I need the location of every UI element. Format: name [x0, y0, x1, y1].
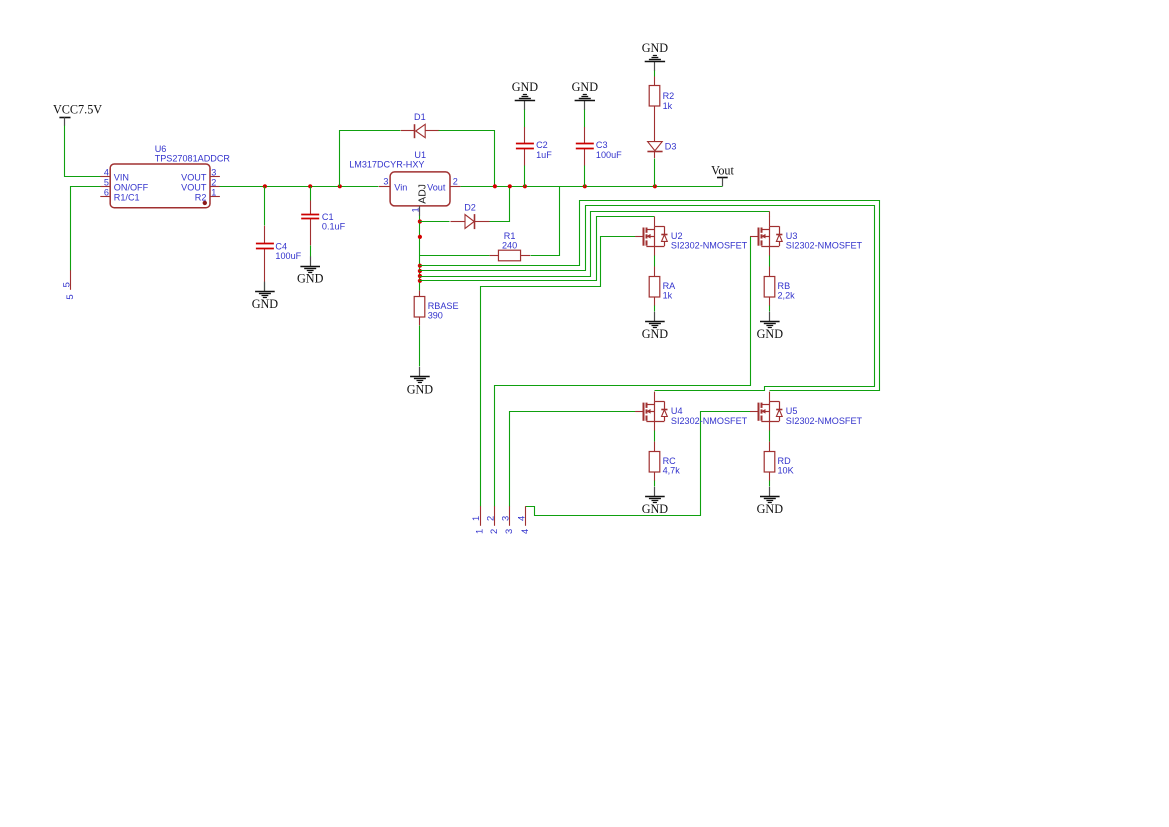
- svg-text:3: 3: [383, 177, 388, 187]
- wire bus to D1 anode: [340, 131, 401, 187]
- node bus/C3: [583, 184, 587, 188]
- capacitor C1 plates: [301, 215, 319, 219]
- wire ground to C3: [584, 110, 586, 128]
- wire C2 to bus: [524, 166, 526, 187]
- resistor R1 240: [490, 255, 530, 257]
- svg-text:GND: GND: [407, 382, 434, 396]
- connector pin 1: [470, 506, 485, 534]
- ground below C4: [252, 282, 279, 311]
- IC U6 TPS27081ADDCR: [100, 164, 220, 208]
- wire B ADJ to U4 drain: [420, 206, 875, 391]
- svg-text:240: 240: [502, 241, 517, 251]
- resistor RB body: [764, 277, 775, 298]
- capacitor C3 100uF: [584, 127, 586, 166]
- svg-text:1uF: 1uF: [536, 150, 552, 160]
- wire U1 Vout bus to Vout flag: [461, 186, 723, 188]
- wire D ADJ to U2 drain: [420, 217, 655, 281]
- svg-text:2: 2: [488, 529, 499, 534]
- svg-text:D3: D3: [665, 141, 677, 151]
- svg-text:1: 1: [211, 187, 216, 197]
- svg-text:Vin: Vin: [394, 183, 407, 193]
- svg-text:4,7k: 4,7k: [663, 466, 681, 476]
- diode D2: [451, 214, 490, 229]
- svg-text:1: 1: [410, 207, 420, 212]
- wire U4 gate to pin 3: [510, 412, 636, 507]
- svg-text:1k: 1k: [663, 101, 673, 111]
- label RD 10K: [778, 456, 794, 476]
- label U1 LM317DCYR-HXY: [349, 150, 426, 169]
- svg-text:2,2k: 2,2k: [778, 291, 796, 301]
- label C3 100uF: [596, 140, 622, 160]
- wire D2 cathode to bus: [490, 187, 510, 222]
- svg-text:C3: C3: [596, 140, 608, 150]
- wire ground to R2: [654, 71, 656, 77]
- ground below RC: [642, 487, 669, 516]
- svg-text:4: 4: [519, 529, 530, 534]
- resistor RC 4,7k: [654, 442, 656, 481]
- label C4 100uF: [275, 241, 301, 260]
- svg-text:Vout: Vout: [427, 183, 446, 193]
- wire RD top: [769, 431, 771, 442]
- node ADJ/wire D: [418, 279, 422, 283]
- wire ADJ to R1: [420, 255, 490, 257]
- connector pin 3: [499, 506, 514, 534]
- svg-text:R1/C1: R1/C1: [114, 192, 140, 202]
- svg-text:VOUT: VOUT: [181, 182, 207, 192]
- label RA 1k: [663, 281, 677, 301]
- svg-text:GND: GND: [252, 297, 279, 311]
- resistor RD body: [764, 452, 775, 473]
- wire RC top: [654, 431, 656, 442]
- wire pin 4 to U5 gate: [526, 412, 751, 516]
- svg-text:VCC7.5V: VCC7.5V: [53, 103, 102, 117]
- ground above C3: [572, 80, 599, 110]
- capacitor C2 1uF: [524, 127, 526, 166]
- label D3: [665, 141, 677, 151]
- svg-text:100uF: 100uF: [275, 251, 301, 261]
- label U4 SI2302-NMOSFET: [671, 406, 748, 426]
- ground below RBASE: [407, 367, 434, 396]
- svg-text:ADJ: ADJ: [417, 184, 428, 204]
- svg-text:5: 5: [104, 178, 109, 188]
- resistor RA body: [649, 277, 660, 298]
- node bus/C4: [263, 184, 267, 188]
- ground below RB: [757, 312, 784, 341]
- capacitor C4 plates: [256, 244, 274, 249]
- resistor RBASE body: [414, 297, 425, 318]
- label U6 TPS27081ADDCR: [155, 144, 231, 163]
- capacitor C2 plates: [516, 144, 534, 149]
- wire C ADJ to U3 drain: [420, 212, 770, 277]
- svg-text:1: 1: [470, 516, 481, 521]
- svg-text:SI2302-NMOSFET: SI2302-NMOSFET: [671, 416, 748, 426]
- node ADJ/D2: [418, 219, 422, 223]
- svg-text:1k: 1k: [663, 291, 673, 301]
- label RC 4,7k: [663, 456, 681, 476]
- wire U2 gate to pin 1: [481, 237, 636, 507]
- node bus/C1: [308, 184, 312, 188]
- label RBASE 390: [428, 301, 459, 321]
- svg-text:3: 3: [211, 167, 216, 177]
- svg-text:RC: RC: [663, 456, 677, 466]
- svg-text:6: 6: [104, 187, 109, 197]
- ground below RA: [642, 312, 669, 341]
- svg-text:C4: C4: [275, 241, 287, 251]
- svg-text:VOUT: VOUT: [181, 172, 207, 182]
- wire R1 to bus: [531, 187, 560, 256]
- ground above C2: [512, 80, 539, 110]
- wire C4 to ground: [264, 283, 266, 291]
- svg-text:D1: D1: [414, 112, 426, 122]
- wire RA to ground: [654, 306, 656, 312]
- svg-text:SI2302-NMOSFET: SI2302-NMOSFET: [786, 416, 863, 426]
- wire C1 to ground: [310, 246, 312, 257]
- svg-text:GND: GND: [642, 502, 669, 516]
- svg-text:VIN: VIN: [114, 172, 129, 182]
- wire RC to ground: [654, 481, 656, 487]
- resistor R2 1k: [654, 77, 656, 142]
- svg-text:RA: RA: [663, 281, 677, 291]
- svg-text:U5: U5: [786, 406, 798, 416]
- resistor RB 2,2k: [769, 267, 771, 306]
- svg-text:3: 3: [499, 516, 510, 521]
- svg-text:U2: U2: [671, 231, 683, 241]
- svg-text:5: 5: [60, 282, 71, 287]
- svg-text:4: 4: [104, 167, 109, 177]
- node bus/D2: [508, 184, 512, 188]
- wire RD to ground: [769, 481, 771, 487]
- svg-text:Vout: Vout: [711, 163, 734, 177]
- resistor RD 10K: [769, 442, 771, 481]
- power flag Vout: [711, 163, 734, 186]
- ground below RD: [757, 487, 784, 516]
- svg-text:2: 2: [211, 178, 216, 188]
- wire U6 ON/OFF to pin header 5: [71, 187, 101, 271]
- wire VCC to U6 VIN: [65, 126, 101, 177]
- label D1: [414, 112, 426, 122]
- svg-text:LM317DCYR-HXY: LM317DCYR-HXY: [349, 160, 424, 170]
- label R1 240: [502, 231, 517, 251]
- node bus/C2: [523, 184, 527, 188]
- wire RB top: [769, 256, 771, 267]
- resistor RBASE 390: [419, 291, 421, 326]
- label U5 SI2302-NMOSFET: [786, 406, 863, 426]
- svg-text:R2: R2: [663, 91, 675, 101]
- svg-text:4: 4: [515, 516, 526, 521]
- svg-text:2: 2: [484, 516, 495, 521]
- transistor U5 SI2302-NMOSFET: [750, 392, 782, 431]
- node ADJ/wire C: [418, 274, 422, 278]
- svg-text:10K: 10K: [778, 466, 794, 476]
- node bus/D1 right: [493, 184, 497, 188]
- wire ADJ column: [419, 216, 421, 291]
- resistor RC body: [649, 452, 660, 473]
- svg-text:RB: RB: [778, 281, 791, 291]
- svg-text:GND: GND: [757, 327, 784, 341]
- power flag VCC7.5V: [53, 103, 102, 126]
- wire to C1: [310, 187, 312, 201]
- svg-text:5: 5: [64, 294, 75, 299]
- transistor U2 SI2302-NMOSFET: [635, 217, 667, 256]
- label C1 0.1uF: [322, 212, 346, 232]
- svg-text:2: 2: [453, 177, 458, 187]
- resistor R1 body: [498, 250, 520, 261]
- wire D3 to bus: [654, 159, 656, 187]
- wire RA top: [654, 256, 656, 267]
- node ADJ/wire B: [418, 269, 422, 273]
- wire ground to C2: [524, 110, 526, 128]
- svg-text:GND: GND: [572, 80, 599, 94]
- transistor U4 SI2302-NMOSFET: [635, 392, 667, 431]
- wire U3 drain lead: [769, 211, 771, 217]
- ground above R2: [642, 41, 669, 71]
- svg-text:U4: U4: [671, 406, 683, 416]
- svg-text:C2: C2: [536, 140, 548, 150]
- transistor U3 SI2302-NMOSFET: [750, 217, 782, 256]
- node ADJ: [418, 235, 422, 239]
- label R2 1k: [663, 91, 675, 111]
- svg-text:C1: C1: [322, 212, 334, 222]
- label D2: [464, 202, 476, 212]
- wire ADJ to D2 anode: [420, 221, 450, 223]
- label RB 2,2k: [778, 281, 796, 301]
- diode D3: [647, 142, 662, 159]
- svg-text:390: 390: [428, 310, 443, 320]
- svg-text:GND: GND: [512, 80, 539, 94]
- svg-text:RD: RD: [778, 456, 792, 466]
- node bus/D1 left: [338, 184, 342, 188]
- connector pin 5: [60, 270, 75, 299]
- svg-text:100uF: 100uF: [596, 150, 622, 160]
- wire RBASE to ground: [419, 326, 421, 367]
- wire A ADJ to U5 drain: [420, 201, 880, 391]
- svg-text:SI2302-NMOSFET: SI2302-NMOSFET: [671, 241, 748, 251]
- capacitor C4 100uF: [264, 226, 266, 282]
- svg-text:GND: GND: [642, 41, 669, 55]
- node ADJ/wire A: [418, 264, 422, 268]
- wire U6 VOUT to U1 Vin: [220, 186, 379, 188]
- svg-text:GND: GND: [757, 502, 784, 516]
- resistor RA 1k: [654, 267, 656, 306]
- capacitor C1 0.1uF: [310, 201, 312, 246]
- svg-text:R1: R1: [504, 231, 516, 241]
- wire U3 gate to pin 2: [495, 237, 751, 507]
- regulator U1 LM317DCYR-HXY: [379, 172, 461, 216]
- connector pin 2: [484, 506, 499, 534]
- svg-text:GND: GND: [297, 272, 324, 286]
- wire D1 cathode to bus: [439, 131, 495, 187]
- svg-text:D2: D2: [464, 202, 476, 212]
- svg-text:1: 1: [474, 529, 485, 534]
- wire C3 to bus: [584, 166, 586, 187]
- svg-text:ON/OFF: ON/OFF: [114, 182, 149, 192]
- label U3 SI2302-NMOSFET: [786, 231, 863, 251]
- connector pin 4: [515, 506, 530, 534]
- svg-text:0.1uF: 0.1uF: [322, 222, 346, 232]
- ground below C1: [297, 256, 324, 285]
- svg-text:U3: U3: [786, 231, 798, 241]
- diode D1: [401, 124, 440, 138]
- svg-text:GND: GND: [642, 327, 669, 341]
- resistor R2 body: [649, 86, 660, 107]
- svg-text:RBASE: RBASE: [428, 301, 459, 311]
- node bus/D3: [653, 184, 657, 188]
- svg-text:SI2302-NMOSFET: SI2302-NMOSFET: [786, 241, 863, 251]
- label U2 SI2302-NMOSFET: [671, 231, 748, 251]
- wire to C4: [264, 187, 266, 226]
- svg-text:TPS27081ADDCR: TPS27081ADDCR: [155, 153, 231, 163]
- wire RB to ground: [769, 306, 771, 312]
- capacitor C3 plates: [576, 144, 594, 149]
- svg-text:3: 3: [503, 529, 514, 534]
- label C2 1uF: [536, 140, 552, 160]
